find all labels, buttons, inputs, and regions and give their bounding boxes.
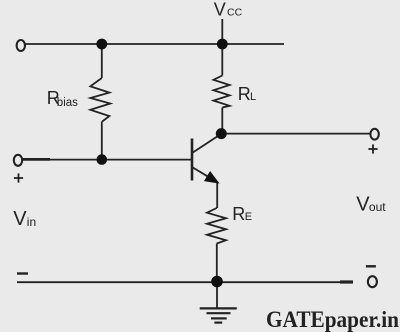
svg-text:CC: CC — [227, 7, 243, 19]
svg-text:L: L — [250, 91, 256, 103]
svg-text:bias: bias — [57, 97, 78, 109]
svg-text:R: R — [238, 84, 251, 104]
svg-text:out: out — [369, 200, 386, 214]
svg-text:GATEpaper.in: GATEpaper.in — [266, 307, 399, 332]
svg-text:E: E — [245, 211, 252, 223]
svg-text:in: in — [27, 215, 36, 229]
svg-text:V: V — [214, 0, 226, 20]
svg-text:V: V — [13, 208, 27, 230]
svg-text:R: R — [232, 204, 245, 224]
